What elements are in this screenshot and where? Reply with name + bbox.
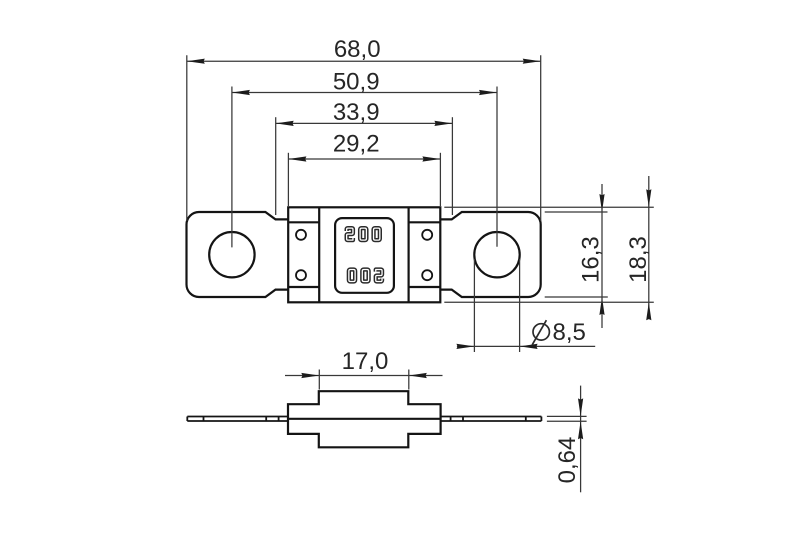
svg-text:8,5: 8,5 [553,319,586,346]
body left end-cap seam [318,207,320,302]
right blade bottom edge [441,420,542,422]
right blade seam 2 [462,417,464,422]
dim 0,64 bottom extension line [547,420,587,422]
dim 50,9 right arrow [479,90,497,95]
dim 0,64 top extension line [547,415,587,417]
left blade seam 2 [265,417,267,422]
side view body centre parting line [288,418,441,420]
dim 17,0 left extension line [318,370,320,390]
dim 17,0 right extension line [408,370,410,390]
dim 18,3 top extension line [444,206,654,208]
left blade top edge [187,416,288,418]
svg-text:18,3: 18,3 [625,236,652,283]
right end-cap bottom fold line [409,286,441,288]
diameter symbol circle [533,324,549,340]
dim 50,9 left arrow [232,90,250,95]
dim 16,3 top arrow [599,194,604,212]
rivet top-left [296,230,306,240]
rivet bottom-right [422,270,432,280]
dim 50,9 right extension / hole centreline [496,87,498,247]
rating text 200 (LCD style) [347,228,380,240]
left end-cap top fold line [288,221,319,223]
side view stepped body outline [288,391,441,447]
left terminal tab [187,212,289,297]
dim Ø8,5 left arrow [456,344,474,349]
dim 0,64 line [580,386,582,493]
dim 33,9 left extension line [275,117,277,215]
dim 16,3 line [601,184,603,328]
right blade seam 1 [450,417,452,422]
dim 33,9 left arrow [276,121,294,126]
rating label plate [335,218,394,293]
left blade seam 1 [203,417,205,422]
right mounting hole [474,232,519,277]
dim 17,0 right arrow [409,373,427,378]
dim 18,3 bottom extension line [444,301,654,303]
dim 33,9 line [276,122,453,124]
right blade end cap [540,417,542,422]
svg-text:33,9: 33,9 [333,99,380,126]
right blade seam 3 [525,417,527,422]
rivet bottom-left [296,270,306,280]
dim 68,0 left arrow [187,59,205,64]
dim 17,0 left arrow [301,373,319,378]
right blade top edge [441,416,542,418]
dim 16,3 bottom arrow [599,297,604,315]
dim 50,9 left extension / hole centreline [231,87,233,248]
body right end-cap seam [408,207,410,302]
dim 18,3 top arrow [646,189,651,207]
svg-text:16,3: 16,3 [578,236,605,283]
left blade end cap [186,417,188,422]
diameter symbol slash [532,320,546,345]
dim 18,3 bottom arrow [646,302,651,320]
dim 33,9 right arrow [434,121,452,126]
svg-text:17,0: 17,0 [342,348,389,375]
dim 29,2 right extension line [439,153,441,206]
dim 50,9 line [232,92,497,94]
dim 29,2 left arrow [288,156,306,161]
dim Ø8,5 right extension line [519,259,521,352]
dim Ø8,5 left extension line [473,259,475,352]
dim 29,2 left extension line [287,153,289,206]
svg-text:0,64: 0,64 [554,437,581,484]
svg-text:68,0: 68,0 [334,36,381,63]
right terminal tab [440,212,540,297]
dim 0,64 top arrow [578,398,583,416]
fuse body outline [288,207,440,302]
dim 16,3 top extension line [545,211,608,213]
dim 68,0 line [187,60,541,62]
dim 29,2 right arrow [422,156,440,161]
dim 33,9 right extension line [451,117,453,215]
left end-cap bottom fold line [288,286,319,288]
left blade seam 3 [278,417,280,422]
left mounting hole [209,232,254,277]
dim 68,0 right arrow [523,59,541,64]
svg-text:29,2: 29,2 [333,131,380,158]
dim Ø8,5 line [457,345,595,347]
dim 16,3 bottom extension line [545,296,608,298]
dim 68,0 right extension line [540,55,542,221]
dim Ø8,5 right arrow [520,344,538,349]
rivet top-right [422,230,432,240]
dim 18,3 line [648,176,650,318]
dim 0,64 bottom arrow [578,421,583,439]
dim 29,2 line [288,158,440,160]
right end-cap top fold line [409,221,441,223]
rating text 002 (180deg rotated copy) [349,270,382,282]
dim 68,0 left extension line [186,55,188,221]
svg-text:50,9: 50,9 [333,69,380,96]
left blade bottom edge [187,420,288,422]
dim 17,0 line [285,375,443,377]
